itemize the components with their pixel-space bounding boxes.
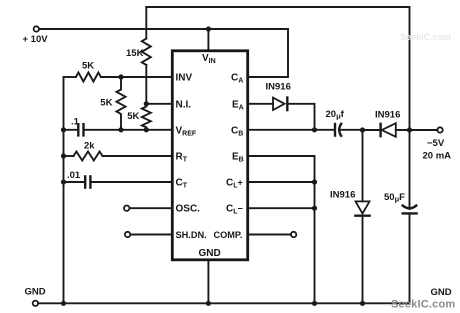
svg-text:GND: GND	[199, 248, 221, 259]
wire right rail from -5V node down to 50uF top plate	[409, 130, 411, 209]
svg-text:20 mA: 20 mA	[423, 150, 452, 161]
terminal -5V output	[437, 127, 442, 132]
wire EB row and vertical rail to ground	[249, 156, 315, 303]
wire ground rail	[38, 302, 409, 304]
wire D2 to -5V terminal	[396, 129, 438, 131]
wire VREF row to cap	[64, 129, 79, 131]
diode D3 IN916 (vertical)	[356, 201, 370, 213]
wire CL+ stub	[249, 181, 315, 183]
wire top rail from 15K top to right rail	[146, 6, 409, 8]
svg-text:SH.DN.: SH.DN.	[176, 230, 207, 240]
capacitor C 0.1	[77, 123, 79, 137]
svg-text:15K: 15K	[126, 48, 144, 59]
svg-text:GND: GND	[25, 287, 46, 298]
wire right rail upper segment	[409, 7, 411, 130]
wire EA stub	[249, 103, 273, 105]
wire vertical diode branch upper	[362, 130, 364, 201]
node VREF rail dot	[61, 127, 66, 132]
capacitor C 50uF output	[402, 205, 417, 209]
diode D2 IN916 (output, cathode left)	[379, 123, 381, 138]
svg-text:IN916: IN916	[330, 190, 355, 201]
svg-text:COMP.: COMP.	[214, 230, 243, 240]
wire N.I. stub	[146, 103, 171, 105]
wire EA diode to vertical drop onto CB row	[288, 104, 314, 130]
wire IC GND stub	[207, 261, 209, 303]
node VIN junction dot	[206, 26, 211, 31]
wire corner down to CA stub	[249, 29, 288, 77]
wire vertical diode to ground	[362, 216, 364, 304]
resistor R 15K	[142, 39, 151, 65]
svg-text:5K: 5K	[127, 111, 139, 122]
node gnd rail dot a	[61, 301, 66, 306]
terminal +10V input	[34, 26, 39, 31]
svg-text:.01: .01	[67, 170, 81, 181]
resistor R 2k	[74, 152, 103, 161]
svg-text:+ 10V: + 10V	[23, 34, 49, 45]
node N.I. junction dot	[144, 101, 149, 106]
wire INV row to IC	[101, 76, 171, 78]
node CB junction dot	[312, 127, 317, 132]
resistor R 5K (vertical, INV to VREF)	[117, 77, 126, 130]
node INV junction dot	[118, 74, 123, 79]
wire 15K bottom lead crossing INV row to N.I. node	[145, 65, 147, 104]
node CL+ dot	[312, 179, 317, 184]
resistor R 5K (horizontal, INV row)	[76, 73, 101, 82]
wire +10V line to corner above CA	[39, 28, 288, 30]
wire CB row from IC to 20uF	[249, 129, 335, 131]
svg-text:50μF: 50μF	[384, 192, 405, 204]
node gnd rail dot c	[312, 301, 317, 306]
op-amp U1 SG3524 regulator IC body	[172, 51, 247, 260]
wire COMP stub	[249, 234, 291, 236]
wire left rail	[63, 77, 65, 303]
wire SH.DN. stub	[130, 234, 171, 236]
diode D1 IN916 (EA to CB)	[273, 98, 285, 110]
node CL- dot	[312, 206, 317, 211]
wire CT row to IC	[90, 181, 171, 183]
terminal SH.DN.	[125, 232, 130, 237]
terminal OSC	[124, 206, 129, 211]
wire RT row to IC	[103, 155, 172, 157]
svg-text:INV: INV	[176, 73, 193, 84]
node gnd rail dot d	[360, 301, 365, 306]
wire VIN stub	[207, 29, 209, 50]
svg-text:SeekIC.com: SeekIC.com	[391, 299, 455, 311]
node VREF/5K dot a	[118, 127, 123, 132]
node gnd rail dot b	[206, 301, 211, 306]
resistor R 5K (vertical, N.I. to VREF)	[142, 104, 151, 130]
node RT rail dot	[61, 153, 66, 158]
svg-text:IN916: IN916	[266, 82, 291, 93]
svg-text:OSC.: OSC.	[176, 204, 201, 215]
capacitor C 0.01	[84, 175, 86, 189]
svg-text:N.I.: N.I.	[176, 99, 192, 110]
wire CL- stub	[249, 207, 315, 209]
wire CT row left	[64, 181, 86, 183]
wire INV row left part	[64, 76, 76, 78]
svg-text:SeekIC.com: SeekIC.com	[400, 32, 451, 42]
wire VREF row to IC	[84, 129, 172, 131]
node VREF/5K dot b	[144, 127, 149, 132]
svg-text:2k: 2k	[84, 141, 95, 152]
svg-text:.1: .1	[71, 117, 80, 128]
wire OSC stub	[130, 207, 172, 209]
node CT rail dot	[61, 179, 66, 184]
wire RT row left	[64, 155, 74, 157]
svg-text:20μf: 20μf	[326, 109, 345, 121]
wire 15K top lead from top rail	[145, 7, 147, 39]
svg-text:IN916: IN916	[375, 110, 400, 121]
svg-text:GND: GND	[431, 287, 452, 298]
svg-text:5K: 5K	[82, 60, 94, 71]
node -5V rail dot	[407, 127, 412, 132]
wire right rail from 50uF bottom plate to ground rail	[409, 213, 411, 303]
node diode junction dot	[360, 127, 365, 132]
capacitor C 20uF	[334, 123, 336, 137]
svg-text:−5V: −5V	[427, 138, 445, 149]
terminal COMP	[291, 232, 296, 237]
wire 20uF to diode node	[341, 129, 362, 131]
terminal GND left	[33, 301, 38, 306]
svg-text:5K: 5K	[100, 98, 112, 109]
wire to D2	[363, 129, 380, 131]
